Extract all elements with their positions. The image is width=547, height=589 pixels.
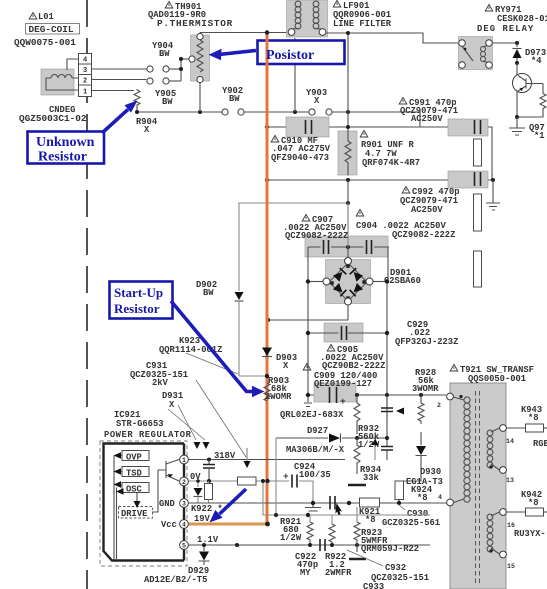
svg-text:OSC: OSC [126, 485, 143, 495]
RY971 labels [477, 4, 547, 34]
page boundary dashed line [86, 0, 88, 589]
svg-text:QFZ9040-473: QFZ9040-473 [271, 153, 329, 163]
ground R934 [348, 484, 366, 486]
D902 label [196, 280, 217, 298]
svg-text:2WMFR: 2WMFR [325, 568, 352, 578]
wire x276 drop [275, 438, 277, 515]
svg-text:1/2W: 1/2W [280, 533, 302, 543]
svg-text:BW: BW [229, 94, 240, 104]
wire y203 crossing [347, 203, 349, 247]
wire pin3 row GND [189, 502, 447, 504]
svg-text:LINE FILTER: LINE FILTER [333, 19, 392, 29]
Y902 label [222, 86, 243, 104]
svg-text:16: 16 [507, 522, 515, 529]
diode D902 [235, 292, 244, 301]
Y905 label [155, 89, 176, 107]
C924 labels [294, 462, 331, 480]
DEG-COIL boxed label [26, 24, 80, 36]
svg-text:QRM059J-R22: QRM059J-R22 [361, 544, 419, 554]
arrow OSC2 [116, 488, 124, 495]
GND Vcc labels [159, 499, 177, 530]
wire top AC y32 [200, 32, 287, 34]
resistor body K942 [526, 508, 547, 516]
pointer line C931 [196, 380, 246, 457]
L01 label [29, 12, 54, 22]
C933 partial label [363, 582, 384, 589]
wire y515 [263, 481, 430, 515]
degauss coil gray pad [41, 69, 74, 95]
diode D903 on startup path [262, 348, 272, 357]
svg-text:RU3YX-: RU3YX- [514, 529, 546, 539]
svg-text:STR-G6653: STR-G6653 [116, 419, 164, 429]
svg-text:D927: D927 [307, 426, 328, 436]
OVP block [122, 451, 149, 463]
wire bridge bottom to orange [269, 305, 348, 320]
barrier rect 3 [474, 251, 482, 287]
svg-text:2: 2 [83, 78, 87, 86]
svg-text:QQS0050-001: QQS0050-001 [468, 374, 526, 384]
wire pin14 out [507, 427, 526, 429]
capacitor C924 [283, 471, 297, 488]
K943 labels [521, 405, 542, 423]
svg-text:AC250V: AC250V [411, 114, 443, 124]
svg-text:*8: *8 [417, 493, 428, 503]
svg-text:POWER REGULATOR: POWER REGULATOR [104, 430, 192, 440]
spark gap Y904 [147, 66, 169, 72]
R932 labels [358, 424, 380, 450]
continuation arrow up [372, 438, 379, 460]
arrow OSC [114, 481, 123, 488]
continuation arrow pair [194, 442, 210, 449]
svg-text:Start-Up: Start-Up [114, 285, 163, 300]
TSD block [122, 467, 149, 479]
T921 pin14 [500, 425, 514, 445]
svg-text:33k: 33k [363, 473, 380, 483]
wire rectified y127 [267, 127, 492, 180]
ground Q971 [509, 117, 525, 135]
C929 labels [395, 320, 458, 347]
svg-text:3: 3 [182, 501, 186, 508]
svg-text:BW: BW [162, 97, 173, 107]
resistor at right edge [539, 84, 546, 115]
svg-text:QRF074K-4R7: QRF074K-4R7 [362, 158, 420, 168]
annotation arrow to 19V [210, 489, 247, 523]
svg-text:OVP: OVP [126, 453, 142, 463]
ground stub y395 [304, 395, 312, 407]
relay RY971 [459, 37, 493, 70]
IC921 body outline [104, 444, 185, 561]
wire D902 to orange node [239, 301, 265, 376]
svg-text:DEG RELAY: DEG RELAY [477, 24, 534, 34]
IC921 labels [104, 410, 192, 440]
D903 label [276, 353, 297, 371]
T921 pin2 [437, 393, 453, 409]
pin voltage labels [190, 451, 236, 545]
svg-text:*1: *1 [534, 131, 545, 141]
svg-text:3: 3 [83, 67, 87, 75]
internal transistor [152, 460, 179, 513]
vertical bus node [181, 59, 189, 81]
ground R923 [349, 558, 366, 560]
IC pins [180, 455, 189, 549]
R934 labels [360, 465, 382, 483]
T921 labels [450, 364, 534, 384]
arrow OSC to DRIVE [134, 493, 141, 509]
T921 pin4 [438, 494, 453, 506]
spark gap Y905 [147, 78, 169, 84]
svg-text:QRL02EJ-683X: QRL02EJ-683X [280, 410, 344, 420]
D973 label [525, 48, 546, 66]
wire pin4 stub [67, 59, 79, 70]
DRIVE block [119, 507, 153, 520]
capacitor x387 lower [381, 438, 393, 460]
T921 pin15 [500, 551, 515, 570]
R921 labels [280, 517, 302, 543]
arrow TSD [114, 468, 123, 475]
resistor body K921 [360, 498, 380, 507]
svg-text:X: X [169, 400, 175, 410]
svg-text:BW: BW [159, 49, 170, 59]
capacitor C922 [320, 539, 325, 551]
continuation arrow pin2 [244, 448, 251, 468]
pointer line D931b [168, 409, 205, 440]
resistor R903 on startup path [264, 383, 270, 401]
C909 capacitor [314, 383, 356, 407]
wire D902 branch [239, 203, 348, 291]
diode D927 [329, 434, 341, 443]
svg-text:DEG-COIL: DEG-COIL [29, 24, 74, 35]
CNDEG labels [19, 105, 87, 124]
C910 labels [271, 135, 331, 163]
junction dots on y112 [135, 110, 139, 114]
wire 318V rail y395 [308, 394, 446, 396]
svg-text:QCZ90B2-222Z: QCZ90B2-222Z [322, 361, 385, 371]
svg-text:G2SBA60: G2SBA60 [384, 276, 421, 286]
svg-text:C933: C933 [363, 582, 384, 589]
svg-text:2: 2 [182, 479, 186, 486]
annotation box Posistor [258, 37, 345, 67]
R922 labels [325, 552, 352, 578]
pointer line C930 [398, 504, 405, 510]
svg-text:1: 1 [182, 457, 186, 464]
wire bridge right [373, 281, 387, 283]
svg-text:D930: D930 [420, 467, 441, 477]
wire pin2 row [92, 79, 147, 81]
svg-text:1: 1 [83, 89, 87, 97]
svg-text:14: 14 [506, 438, 514, 445]
wire top AC to relay [326, 33, 458, 43]
wire to node [170, 80, 182, 82]
svg-text:Unknown: Unknown [36, 135, 95, 150]
annotation arrow to R903 [171, 301, 265, 397]
svg-text:Resistor: Resistor [38, 150, 87, 165]
resistor R901 [338, 127, 357, 176]
svg-text:MA306B/M/-X: MA306B/M/-X [286, 445, 345, 455]
wire x348 drop [347, 180, 349, 257]
wire to node [170, 68, 182, 70]
D929 labels [144, 566, 209, 585]
ground symbol mid [305, 503, 321, 511]
continuation arrow single [244, 448, 251, 468]
svg-text:QCZ9082-222Z: QCZ9082-222Z [392, 230, 455, 240]
svg-text:4: 4 [438, 494, 442, 501]
svg-text:QEZ0199-127: QEZ0199-127 [314, 379, 372, 389]
arrow OVP [114, 452, 123, 459]
resistor R934 [354, 438, 360, 474]
T921 core dashed [476, 391, 480, 585]
orange startup path vertical [266, 32, 269, 524]
R923 labels [361, 528, 419, 554]
resistor R932 [354, 395, 360, 434]
RU3YX label [514, 529, 546, 539]
annotation box Unknown Resistor [28, 132, 105, 165]
svg-text:1.1V: 1.1V [197, 535, 219, 545]
capacitor x387 upper [381, 395, 393, 419]
R928 label [412, 368, 439, 394]
K942 labels [521, 490, 542, 508]
LF901 labels [333, 0, 392, 29]
svg-text:AC250V: AC250V [411, 205, 443, 215]
svg-text:QGZ5003C1-02: QGZ5003C1-02 [19, 113, 87, 124]
annotation arrow to posistor [209, 49, 257, 60]
bridge rectifier D901 [323, 247, 373, 305]
svg-text:*8: *8 [528, 498, 539, 508]
svg-text:2: 2 [437, 402, 441, 409]
orange startup path horizontal [187, 523, 267, 526]
capacitor row C907 C904 [305, 236, 389, 257]
wire pin5 row [189, 544, 431, 546]
svg-text:*8: *8 [528, 413, 539, 423]
resistor body K943 [526, 424, 547, 432]
capacitor C929 [308, 323, 387, 342]
svg-text:C932: C932 [385, 563, 406, 573]
C931 label [130, 361, 188, 388]
T921 pin13 [500, 467, 514, 484]
arrow at cap [396, 408, 404, 415]
barrier rect 1 [474, 139, 482, 166]
svg-text:GCZ0325-561: GCZ0325-561 [382, 518, 440, 528]
C992 labels [400, 186, 460, 215]
wire right AC branch x387 [387, 247, 388, 438]
pointer line K923 [186, 353, 238, 374]
capacitor C992 [448, 171, 488, 188]
capacitor 318V [203, 460, 215, 481]
small cursor arrow [335, 503, 342, 516]
C991 labels [399, 97, 458, 124]
junction dots y127 [265, 125, 269, 129]
zener on pin2 net [194, 481, 203, 503]
resistor R928 [418, 395, 424, 424]
svg-text:X: X [314, 96, 320, 106]
wire emitter to ground [517, 114, 543, 117]
wire pin1 to R904 [92, 90, 135, 92]
T921 upper secondary [487, 428, 499, 470]
wire [333, 112, 421, 127]
R901 labels [360, 130, 420, 168]
C907 labels [283, 214, 348, 241]
T921 pin16 [500, 509, 515, 529]
orange wire over pin4 label area [265, 522, 270, 527]
svg-text:P.THERMISTOR: P.THERMISTOR [157, 18, 233, 29]
main AC wire y112 [137, 111, 222, 113]
RGB label [533, 439, 547, 449]
junction dots [179, 57, 183, 61]
wire relay to D973 node [492, 42, 517, 44]
svg-text:QQW0075-001: QQW0075-001 [14, 37, 76, 48]
K921 labels [359, 507, 380, 525]
L01 part number [14, 37, 76, 48]
svg-text:5: 5 [182, 543, 186, 550]
svg-text:TSD: TSD [126, 469, 142, 479]
annotation arrow to R904 [102, 101, 138, 134]
svg-text:MY: MY [300, 568, 311, 578]
wire D927 row [276, 437, 387, 439]
wire LF901 left pin drop [294, 38, 296, 112]
wire pin3 row [92, 68, 147, 70]
spark gap Y903 [309, 109, 332, 115]
svg-text:3WOMR: 3WOMR [412, 384, 439, 394]
ground C992 [486, 180, 500, 210]
resistor body on pin2 row [238, 477, 257, 485]
svg-text:QCZ9082-222Z: QCZ9082-222Z [285, 231, 348, 241]
C905 labels [320, 344, 385, 371]
pointer line C932 [347, 550, 383, 566]
capacitor C991 [448, 119, 488, 136]
transistor Q971 [513, 63, 540, 117]
wire posistor bottom drop [199, 83, 201, 113]
wire pin2 row [189, 481, 314, 503]
svg-text:Resistor: Resistor [114, 301, 160, 316]
D927 labels [286, 426, 345, 455]
svg-text:13: 13 [506, 477, 514, 484]
OSC block [122, 483, 149, 495]
svg-text:X: X [144, 125, 150, 135]
R904 label [136, 117, 158, 135]
Q971 label [529, 123, 545, 141]
TH901 labels [148, 1, 233, 29]
R903 label [265, 376, 292, 402]
T921 lower secondary [487, 512, 499, 554]
resistor R922 [329, 515, 335, 544]
svg-text:BW: BW [203, 288, 214, 298]
posistor TH901 [189, 33, 210, 83]
pointer line D931 [178, 405, 196, 440]
wire [245, 111, 309, 113]
resistor R904 [134, 89, 140, 110]
svg-text:K922 *: K922 * [191, 504, 223, 514]
svg-text:4: 4 [182, 522, 186, 529]
svg-text:+: + [283, 471, 289, 482]
C932 labels [371, 563, 429, 583]
spark gap Y902 [222, 109, 244, 115]
C922 labels [295, 552, 318, 578]
wire pin16 out [507, 511, 526, 513]
svg-text:AD12E/B2/-T5: AD12E/B2/-T5 [144, 575, 207, 585]
D930 labels [406, 467, 443, 503]
svg-text:X: X [283, 361, 289, 371]
svg-text:100/35: 100/35 [299, 470, 331, 480]
K923 label [159, 336, 222, 355]
C909 labels [303, 363, 377, 389]
svg-text:2kV: 2kV [152, 378, 169, 388]
svg-text:RGB: RGB [533, 439, 547, 449]
resistor body K922 [205, 481, 213, 503]
inductor L01 coil [46, 75, 79, 91]
barrier rect 2 [474, 194, 482, 231]
T921 primary winding [454, 395, 471, 503]
capacitor C930 [330, 496, 335, 510]
svg-text:Vcc: Vcc [161, 520, 177, 530]
QRL02EJ label [280, 410, 344, 420]
IC921 dashed outline [100, 441, 187, 566]
svg-text:L01: L01 [38, 12, 54, 22]
diode D929 [199, 545, 210, 565]
D931 label [162, 391, 183, 410]
svg-text:QFP32GJ-223Z: QFP32GJ-223Z [395, 337, 458, 347]
svg-text:*8: *8 [365, 515, 376, 525]
wire rectified y180 [267, 179, 493, 181]
C904 labels [356, 209, 455, 240]
svg-text:GND: GND [159, 499, 175, 509]
svg-text:2WOMR: 2WOMR [265, 392, 292, 402]
connector CNDEG [79, 54, 92, 97]
svg-text:Posistor: Posistor [266, 48, 314, 63]
annotation box Start-Up Resistor [110, 282, 173, 319]
wire bridge left [308, 281, 323, 283]
diode D973 [513, 43, 522, 64]
wire branch x348 [347, 33, 349, 127]
svg-text:+: + [340, 396, 346, 407]
svg-text:19V: 19V [194, 514, 211, 524]
transformer T921 body [450, 383, 506, 589]
diode D930 [403, 432, 427, 482]
svg-text:CESK028-01: CESK028-01 [497, 14, 547, 24]
svg-text:15: 15 [507, 563, 515, 570]
feedback line left [114, 456, 117, 561]
svg-text:DRIVE: DRIVE [121, 509, 147, 519]
C930 labels [382, 509, 440, 528]
Y904 label [152, 41, 174, 59]
line filter LF901 [287, 0, 328, 37]
Y903 label [306, 88, 327, 106]
resistor R921 [307, 515, 313, 544]
resistor body K924 [395, 481, 404, 503]
resistor R923 [354, 507, 360, 552]
svg-text:*4: *4 [531, 56, 542, 66]
capacitor C910 [286, 117, 329, 137]
wire left AC branch x307 [307, 247, 309, 395]
svg-text:4: 4 [83, 57, 87, 65]
wire pin1 row [189, 459, 346, 461]
D901 labels [384, 268, 421, 286]
